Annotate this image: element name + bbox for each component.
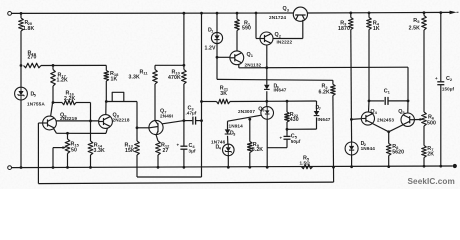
- wire Q7 emitter: [137, 127, 149, 129]
- resistor R16: [53, 102, 62, 104]
- svg-text:27: 27: [163, 148, 169, 154]
- resistor R14: [90, 121, 92, 141]
- capacitor C2: [437, 81, 444, 83]
- resistor R18: [104, 71, 109, 82]
- svg-text:IN2222: IN2222: [277, 40, 293, 45]
- wire D3 to D4: [227, 136, 229, 144]
- diode D1: [211, 32, 222, 43]
- node Q8 collector / R18: [105, 100, 108, 103]
- svg-text:2N1724: 2N1724: [269, 15, 286, 20]
- wire Q9 base to lower bus: [37, 123, 39, 184]
- resistor R8: [388, 132, 390, 144]
- resistor R4: [368, 13, 370, 18]
- node R9 tap: [248, 118, 251, 121]
- node C4 ground: [183, 166, 186, 169]
- svg-text:C1: C1: [384, 89, 391, 95]
- wire D7 to wire C: [316, 101, 318, 111]
- node R1 rail: [236, 12, 239, 15]
- wire cross-couple Q9-Q8: [56, 120, 98, 122]
- transistor Q1 (PNP): [230, 51, 244, 65]
- svg-text:R11: R11: [140, 69, 149, 75]
- wire E Q6 gate: [228, 115, 262, 121]
- wire emitter bus: [57, 132, 107, 134]
- terminal top-left: [8, 12, 12, 16]
- node R2 ground: [332, 166, 335, 169]
- wire bus A down to Q5: [407, 67, 409, 101]
- wire Q6 cathode to ground: [266, 119, 268, 167]
- node R15 ground: [66, 166, 69, 169]
- resistor R1: [236, 13, 238, 19]
- wire C2 column top: [440, 13, 442, 82]
- wire Q5 emitter: [389, 125, 404, 132]
- potentiometer R15: [67, 133, 69, 139]
- node C3/R10/Q7-b2: [183, 119, 186, 122]
- transistor Q8: [99, 115, 113, 129]
- svg-text:2N1132: 2N1132: [245, 63, 262, 68]
- svg-text:1.2K: 1.2K: [57, 78, 69, 84]
- wire top supply rail right of Q3: [307, 11, 451, 14]
- node R3 rail: [349, 12, 352, 15]
- resistor R21: [202, 101, 217, 103]
- transistor Q2: [260, 32, 273, 45]
- svg-text:430: 430: [290, 117, 299, 123]
- resistor R10: [183, 65, 185, 69]
- node Q2 base rail: [255, 12, 258, 15]
- terminal bottom-right dot: [453, 164, 457, 168]
- svg-text:+: +: [280, 136, 283, 141]
- wire bus A to Q5: [239, 66, 408, 69]
- wire D5 column: [20, 66, 22, 88]
- transistor Q9: [43, 116, 57, 130]
- node R12 ground: [157, 166, 160, 169]
- potentiometer R6: [422, 112, 427, 126]
- svg-text:270: 270: [28, 54, 37, 60]
- wire Q2 emitter to Q3: [273, 38, 303, 40]
- wire R19 to bus: [41, 64, 106, 66]
- svg-text:2N2218: 2N2218: [113, 117, 130, 122]
- svg-text:2N2453: 2N2453: [377, 118, 394, 123]
- svg-text:2N2219: 2N2219: [60, 116, 77, 121]
- svg-text:3.3K: 3.3K: [129, 75, 141, 81]
- terminal bottom-left: [8, 166, 12, 170]
- svg-text:Q1: Q1: [247, 52, 254, 58]
- node emitter join: [387, 130, 390, 133]
- wire R15 wiper arm: [53, 147, 63, 149]
- capacitor C4: [180, 145, 187, 147]
- node R20/R19/D5: [20, 64, 23, 67]
- svg-text:1K: 1K: [111, 77, 118, 83]
- wire Q7 base-two: [162, 121, 184, 124]
- node C1 right: [407, 100, 410, 103]
- svg-text:8.2K: 8.2K: [252, 147, 264, 153]
- svg-text:Q5: Q5: [398, 109, 405, 115]
- svg-text:590: 590: [242, 26, 251, 32]
- node R17 top: [52, 64, 55, 67]
- node D4 ground: [227, 166, 230, 169]
- zener diode D4: [223, 144, 235, 156]
- wire C2 column bottom: [440, 85, 442, 166]
- wire R6 to R7: [423, 126, 425, 146]
- resistor R5 (1.5 ohm): [302, 165, 313, 169]
- svg-text:470K: 470K: [168, 75, 181, 81]
- wire Q2 collector column: [266, 45, 268, 68]
- wire sub loop bottom: [137, 176, 202, 178]
- node Q7 emitter tap: [136, 126, 139, 129]
- svg-text:3.3K: 3.3K: [94, 148, 106, 154]
- diode D6: [264, 85, 270, 90]
- svg-text:3K: 3K: [220, 91, 227, 97]
- wire Q8 emitter: [106, 128, 108, 133]
- resistor R20: [20, 13, 22, 18]
- svg-text:IN647: IN647: [318, 117, 331, 122]
- svg-text:Q6: Q6: [258, 106, 265, 112]
- wire pulse output: [106, 101, 137, 103]
- terminal top-right arrow: [450, 11, 457, 15]
- wire D4 to ground: [227, 156, 229, 168]
- wire D6 to Q6: [266, 91, 268, 107]
- svg-text:3μf: 3μf: [189, 149, 196, 154]
- svg-text:6.2K: 6.2K: [319, 89, 331, 95]
- transistor Q3: [293, 7, 307, 21]
- wire D3 column: [227, 121, 229, 129]
- resistor R11: [154, 65, 156, 69]
- node R14 ground: [89, 166, 92, 169]
- diode D2: [345, 142, 358, 155]
- svg-text:5620: 5620: [392, 150, 404, 156]
- node Q8 base / R14: [89, 120, 92, 123]
- wire Q8 collector: [105, 102, 107, 115]
- node R9 ground: [248, 166, 251, 169]
- svg-text:50μf: 50μf: [291, 139, 301, 144]
- wire D2 column: [350, 119, 352, 141]
- node R15 top: [66, 132, 69, 135]
- zener diode D5: [15, 87, 28, 100]
- wire R13 below rail: [136, 155, 138, 177]
- node D5 ground: [20, 166, 23, 169]
- resistor R3: [350, 13, 352, 18]
- node R22 top: [286, 100, 289, 103]
- node R8 ground: [387, 165, 390, 168]
- wire D5 to ground rail: [20, 100, 22, 168]
- wire R7 to ground: [423, 158, 425, 167]
- wire R10 feed: [183, 13, 185, 65]
- wire top supply rail left of Q3: [11, 12, 293, 14]
- wire Q2 base from rail: [255, 13, 257, 39]
- svg-text:SeekIC.com: SeekIC.com: [408, 177, 455, 186]
- svg-text:50: 50: [71, 148, 77, 154]
- wire Q9 base: [38, 122, 42, 124]
- wire R2 below rail: [333, 167, 335, 182]
- wire D7 branch: [287, 128, 317, 130]
- node R10 rail: [183, 12, 186, 15]
- wire Q1 collector down: [238, 64, 240, 67]
- node R21 tap: [200, 100, 203, 103]
- svg-text:1870: 1870: [338, 26, 350, 32]
- svg-text:500: 500: [427, 121, 436, 127]
- wire R21 to Q6/D6 node: [230, 100, 267, 102]
- node D2 ground: [350, 165, 353, 168]
- wire R16 to Q8 base node: [90, 103, 92, 121]
- wire R10 to C3 node: [183, 84, 185, 146]
- wire R11 to Q7: [154, 84, 156, 121]
- capacitor C1: [369, 100, 384, 102]
- capacitor C3: [184, 120, 192, 122]
- wire D1 node down: [216, 57, 218, 79]
- diode D7: [314, 111, 320, 116]
- svg-text:+: +: [435, 76, 438, 81]
- wire R1 to Q1: [236, 31, 238, 52]
- wire D2 to ground: [351, 155, 353, 167]
- resistor R7: [422, 146, 427, 158]
- node R7 ground: [423, 165, 426, 168]
- wire R18 to Q8 collector: [105, 81, 107, 102]
- node rail reference column: [200, 12, 203, 15]
- wire bottom ground rail: [11, 166, 452, 168]
- node Q9 collector / R16: [52, 101, 55, 104]
- node R10 top: [183, 64, 186, 67]
- node R4 rail: [368, 12, 371, 15]
- resistor R12: [156, 141, 161, 155]
- svg-text:1.5Ω: 1.5Ω: [300, 160, 311, 165]
- svg-text:2K: 2K: [427, 151, 434, 157]
- svg-text:1N944: 1N944: [361, 146, 376, 151]
- wire R17 to Q9 collector node: [52, 86, 54, 103]
- wire R11 top bus: [155, 64, 184, 66]
- svg-text:IN647: IN647: [274, 87, 287, 92]
- resistor R22: [286, 101, 288, 112]
- resistor R17: [52, 65, 54, 69]
- node C2 rail: [439, 11, 442, 14]
- node R5 rail: [423, 11, 426, 14]
- wire Q2 column to D6: [266, 80, 268, 85]
- svg-text:.47μf: .47μf: [186, 111, 197, 116]
- wire Q1 base: [217, 56, 230, 58]
- node C1 left: [368, 100, 371, 103]
- wire R20 to R19 junction: [20, 31, 22, 66]
- svg-text:15K: 15K: [125, 148, 135, 154]
- wire D1 from rail: [216, 13, 218, 32]
- node wiper ground: [52, 166, 55, 169]
- svg-text:Q3: Q3: [283, 6, 290, 12]
- resistor R19: [24, 63, 42, 68]
- waveform pulse symbol: [112, 92, 124, 101]
- wire to R13: [136, 102, 138, 142]
- node Q6 ground: [266, 166, 269, 169]
- capacitor C5: [286, 129, 288, 136]
- transistor Q4: [361, 112, 374, 125]
- svg-text:150μf: 150μf: [442, 87, 455, 92]
- node rail D1: [216, 12, 219, 15]
- svg-text:2.5K: 2.5K: [409, 26, 421, 32]
- resistor R5: [423, 13, 425, 16]
- wire R12 from Q7: [156, 135, 158, 141]
- wire bias bus A2 to R2: [217, 78, 333, 81]
- node Q2 collector on bus A: [265, 66, 268, 69]
- svg-text:1.8K: 1.8K: [23, 26, 35, 32]
- wire C5 to ground: [286, 139, 288, 148]
- wire lower return bus: [38, 182, 333, 184]
- node C3 tap: [200, 119, 203, 122]
- wire reference column: [201, 13, 203, 177]
- svg-text:Q2: Q2: [275, 32, 282, 38]
- svg-text:R5: R5: [413, 18, 420, 24]
- svg-text:1.2V: 1.2V: [205, 46, 217, 52]
- wire Q9 collector: [51, 103, 53, 117]
- diode D3: [225, 129, 231, 134]
- svg-text:+: +: [177, 143, 180, 148]
- svg-text:1K: 1K: [373, 26, 380, 32]
- wire R4 to C1 node: [368, 30, 370, 101]
- wire R4 node to Q4: [368, 101, 371, 112]
- wire R3 to Q4 base: [350, 30, 353, 120]
- resistor R2: [332, 80, 334, 84]
- wire Q4 emitter: [372, 124, 388, 132]
- node top rail / R20: [20, 12, 23, 15]
- wire Q4 base: [351, 118, 361, 121]
- svg-text:Q4: Q4: [370, 109, 377, 115]
- wire Q9 emitter: [54, 129, 57, 134]
- node R22/C5/D7: [286, 128, 289, 131]
- wire R2 to ground: [332, 96, 335, 168]
- svg-text:2.2K: 2.2K: [64, 96, 76, 102]
- node Q1 base: [216, 56, 219, 59]
- svg-text:2N3007: 2N3007: [238, 109, 255, 114]
- svg-text:1N755A: 1N755A: [27, 102, 45, 107]
- node Q4 base: [350, 118, 353, 121]
- unijunction transistor Q7: [149, 120, 163, 134]
- wire C to R22/D7: [267, 100, 317, 102]
- resistor R9: [249, 119, 251, 141]
- svg-text:C2: C2: [446, 76, 453, 82]
- wire Q5 base to R6 wiper: [414, 119, 420, 121]
- wire D1 to Q1 base: [216, 44, 218, 58]
- svg-text:1N914: 1N914: [229, 124, 244, 129]
- node wire C crossing: [265, 100, 268, 103]
- svg-text:2N49I: 2N49I: [160, 113, 173, 118]
- resistor R13: [135, 141, 140, 155]
- four-layer diode Q6: [261, 107, 274, 120]
- transistor Q5: [401, 113, 414, 126]
- wire R5 to R6: [423, 30, 425, 112]
- node C2 ground: [439, 165, 442, 168]
